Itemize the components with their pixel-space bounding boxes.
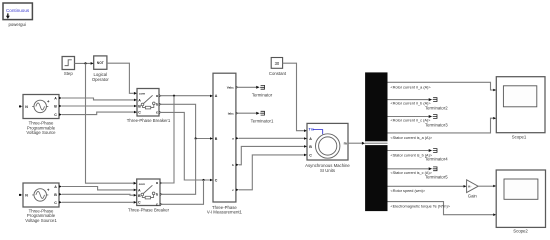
wire NOT to breaker1 com [107, 63, 137, 94]
wire B1.a to VI.A (phase A bus) [159, 95, 213, 98]
terminator T4 (Terminator4) [425, 148, 448, 161]
terminator T3 (Terminator3) [425, 114, 448, 127]
svg-text:B: B [54, 105, 57, 109]
svg-text:+: + [47, 188, 50, 193]
node C junction [202, 179, 204, 181]
terminator T2 (Terminator2) [425, 97, 448, 110]
bus selector (black bar) [365, 72, 387, 211]
wire V1.C to B1.C [62, 111, 137, 115]
svg-text:Three-Phase Breaker1: Three-Phase Breaker1 [127, 118, 171, 123]
gain block (Gain) [467, 180, 479, 199]
svg-text:<Rotor speed (wm)>: <Rotor speed (wm)> [391, 189, 426, 193]
wire V2.B to B2.B [62, 194, 137, 197]
terminator T1 (Terminator1) [251, 111, 274, 124]
step source Step [62, 57, 74, 77]
svg-text:Terminator4: Terminator4 [425, 156, 448, 161]
voltage source V2 (Three-Phase Programmable Voltage Source1) [19, 183, 62, 223]
terminator T5 (Terminator5) [425, 167, 448, 180]
svg-text:C: C [138, 111, 141, 115]
wire VI.Vabc to Terminator [236, 86, 260, 89]
svg-text:m: m [344, 142, 347, 146]
svg-text:N: N [25, 193, 28, 197]
svg-text:Terminator: Terminator [252, 93, 273, 98]
bus out 4: stator current is_a to Scope1 [388, 117, 497, 140]
breaker B2 (Three-Phase Breaker) [128, 179, 170, 212]
svg-text:V-I Measurement1: V-I Measurement1 [207, 210, 243, 215]
svg-text:<Rotor current ir_a (A)>: <Rotor current ir_a (A)> [391, 85, 432, 89]
svg-text:<Electromagnetic torque Te (N*: <Electromagnetic torque Te (N*m)> [391, 204, 451, 208]
svg-text:Terminator3: Terminator3 [425, 122, 448, 127]
svg-text:B: B [309, 145, 312, 149]
svg-text:K-: K- [468, 184, 471, 188]
svg-text:N: N [25, 105, 28, 109]
wire V2.A to B2.A [62, 187, 137, 192]
wire B2.b riser to node B [160, 139, 196, 195]
bus out 8: electromagnetic torque to Scope2 [388, 202, 497, 216]
wire bus output to Terminator3 [388, 115, 433, 123]
V-I measurement block (Three-Phase V-I Measurement1) [207, 73, 243, 214]
svg-text:c: c [156, 111, 158, 115]
svg-text:C: C [215, 178, 218, 182]
svg-text:30: 30 [275, 61, 280, 66]
svg-text:Terminator5: Terminator5 [425, 175, 448, 180]
svg-text:B: B [215, 137, 218, 141]
svg-text:C: C [54, 113, 57, 117]
wire V2.C to B2.C [62, 201, 137, 204]
svg-text:C: C [138, 201, 141, 205]
svg-text:Operator: Operator [92, 77, 110, 82]
wire VI.c to machine C [239, 154, 307, 190]
wire V1.A to B1.A [62, 98, 137, 101]
breaker B1 (Three-Phase Breaker1) [127, 89, 171, 124]
svg-text:A: A [215, 94, 218, 98]
wire B2.c riser to node C [160, 180, 204, 204]
node A junction [173, 95, 175, 97]
wire B1.c to VI.C (phase C bus) [159, 112, 213, 181]
svg-text:C: C [309, 153, 312, 157]
wire B1.b to VI.B (phase B bus) [159, 104, 213, 140]
svg-text:com: com [139, 182, 146, 186]
svg-text:A: A [54, 185, 57, 189]
wire bus output to Terminator5 [388, 167, 433, 175]
svg-text:A: A [138, 188, 141, 192]
svg-text:powergui: powergui [8, 22, 25, 27]
wire step to NOT with junction [75, 62, 94, 65]
wire machine m to bus selector [348, 142, 365, 145]
svg-text:+: + [47, 99, 50, 104]
wire junction down to breaker2 com [86, 63, 137, 184]
asynchronous machine U2 (SI Units) [305, 123, 350, 173]
wire VI.b to machine B [239, 145, 307, 165]
scope Scope1 [496, 77, 545, 140]
wire V1.B to B1.B [62, 105, 137, 108]
svg-text:<Stator current is_a (A)>: <Stator current is_a (A)> [391, 136, 433, 140]
svg-text:Continuous: Continuous [6, 8, 30, 13]
svg-text:B: B [138, 194, 141, 198]
svg-text:Scope1: Scope1 [512, 135, 527, 140]
svg-text:Step: Step [64, 71, 73, 76]
wire bus output to Terminator2 [388, 98, 433, 106]
wire B2.a riser to node A [160, 96, 174, 183]
wire constant to machine Tm [283, 63, 307, 132]
wire VI.Iabc to Terminator1 [236, 112, 260, 115]
voltage source V1 (Three-Phase Programmable Voltage Source) [19, 95, 62, 136]
svg-text:Iabc: Iabc [228, 111, 234, 115]
svg-text:NOT: NOT [97, 61, 104, 65]
constant block (30) [269, 58, 287, 76]
bus out 1: rotor current ir_a to Scope1 [388, 82, 497, 91]
svg-text:Terminator1: Terminator1 [251, 118, 274, 123]
svg-text:Constant: Constant [269, 71, 287, 76]
svg-text:Terminator2: Terminator2 [425, 105, 448, 110]
svg-text:Voltage Source: Voltage Source [26, 130, 56, 135]
wire VI.a to machine A [239, 137, 307, 140]
powergui block [3, 3, 32, 27]
svg-text:Gain: Gain [468, 193, 478, 198]
svg-text:b: b [232, 163, 234, 167]
svg-text:A: A [54, 97, 57, 101]
svg-text:B: B [54, 193, 57, 197]
wire bus output to Terminator4 [388, 149, 433, 157]
svg-text:Scope2: Scope2 [513, 228, 528, 233]
bus out 7: rotor speed to Gain [388, 185, 467, 193]
scope Scope2 [496, 170, 545, 233]
svg-text:SI Units: SI Units [320, 168, 335, 173]
node B junction [195, 137, 197, 139]
svg-text:A: A [138, 98, 141, 102]
logical operator U1 (NOT) [92, 56, 110, 82]
svg-text:Vabc: Vabc [227, 85, 234, 89]
svg-text:Three-Phase Breaker: Three-Phase Breaker [128, 207, 170, 212]
svg-text:A: A [309, 137, 312, 141]
svg-text:Voltage Source1: Voltage Source1 [25, 218, 57, 223]
svg-text:com: com [139, 91, 146, 95]
svg-text:B: B [138, 105, 141, 109]
svg-text:C: C [54, 201, 57, 205]
wire gain to Scope2 [478, 185, 496, 188]
terminator T0 (Terminator) [252, 85, 273, 98]
svg-text:c: c [156, 203, 158, 207]
